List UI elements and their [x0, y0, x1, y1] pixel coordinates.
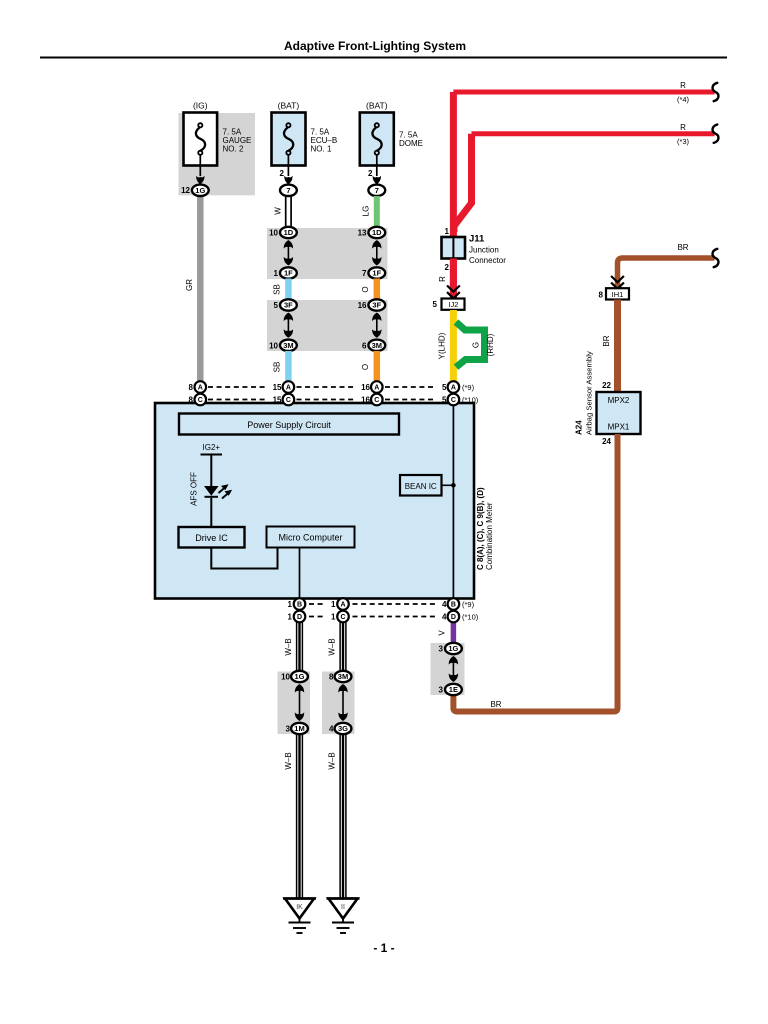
stub col2 into PSC — [287, 384, 289, 414]
svg-text:2: 2 — [368, 169, 373, 178]
svg-text:Connector: Connector — [469, 256, 506, 265]
header rule — [40, 57, 727, 59]
svg-text:C: C — [198, 397, 203, 404]
wire drive IC to micro computer — [211, 548, 277, 569]
svg-text:3G: 3G — [338, 724, 348, 733]
svg-text:Airbag Sensor Assembly: Airbag Sensor Assembly — [585, 351, 594, 435]
svg-text:16: 16 — [358, 301, 367, 310]
connector 7 (DOME) — [368, 185, 385, 196]
wire W-B from C — [340, 622, 346, 672]
svg-text:II: II — [341, 904, 345, 911]
svg-text:1D: 1D — [372, 228, 382, 237]
ECU A24 MPX box — [597, 392, 641, 434]
wire O upper — [374, 279, 381, 302]
gray panel: junction block 3M/3G — [322, 672, 355, 735]
connector 1D col2 — [280, 227, 297, 238]
connector circles A row — [195, 381, 207, 393]
svg-text:O: O — [361, 286, 370, 292]
IG2+ rail — [201, 455, 223, 487]
svg-text:SB: SB — [273, 284, 282, 295]
pass-through arrows 1G/1E — [449, 656, 458, 682]
svg-text:2: 2 — [445, 263, 450, 272]
wire W-B to ground II — [340, 734, 346, 898]
pass-through arrows col2 lower — [284, 313, 293, 338]
dashes row C — [208, 399, 436, 401]
gray panel behind fuse GAUGE NO.2 — [179, 113, 256, 195]
svg-text:B: B — [297, 602, 302, 609]
svg-text:8: 8 — [599, 290, 604, 299]
BEAN IC box — [400, 475, 442, 496]
svg-text:13: 13 — [358, 229, 367, 238]
wire SB upper — [285, 279, 292, 302]
svg-text:W: W — [274, 207, 283, 215]
svg-text:3F: 3F — [372, 301, 381, 310]
svg-text:10: 10 — [281, 673, 290, 682]
svg-text:1D: 1D — [284, 228, 294, 237]
fuse 7.5A ECU-B NO.1 — [272, 113, 306, 177]
svg-text:A: A — [286, 385, 291, 392]
wire BR IH1 to MPX2 — [614, 300, 621, 394]
svg-text:10: 10 — [269, 229, 278, 238]
arrow into 7 — [284, 176, 292, 185]
svg-text:(BAT): (BAT) — [366, 100, 388, 110]
connector 3G — [335, 723, 352, 734]
svg-text:C: C — [340, 614, 345, 621]
svg-text:1F: 1F — [372, 269, 381, 278]
svg-text:7: 7 — [375, 186, 379, 195]
fuse 7.5A DOME — [360, 113, 394, 177]
svg-text:(IG): (IG) — [193, 100, 208, 110]
svg-text:8: 8 — [329, 673, 334, 682]
pass-through arrows col3 — [372, 240, 381, 266]
svg-text:A: A — [374, 385, 379, 392]
double chevron above IH1 — [611, 276, 624, 289]
pins bottom row 2: 1 1 4 — [288, 613, 448, 622]
svg-text:NO. 1: NO. 1 — [311, 145, 332, 154]
svg-text:C: C — [374, 397, 379, 404]
svg-text:A: A — [340, 602, 345, 609]
gray panel: junction block 1D/1F — [267, 228, 388, 279]
svg-text:3M: 3M — [372, 341, 382, 350]
wire LG — [374, 196, 380, 228]
connector 1G — [192, 185, 209, 196]
connector 1G bottom — [291, 671, 308, 682]
svg-text:- 1 -: - 1 - — [373, 941, 394, 955]
label J11 Junction Connector — [469, 234, 506, 266]
gray panel: junction block 1G/1M — [278, 672, 311, 735]
svg-text:1: 1 — [288, 613, 293, 622]
svg-text:NO. 2: NO. 2 — [223, 145, 244, 154]
wire micro computer down to B — [299, 548, 301, 617]
svg-text:MPX2: MPX2 — [608, 396, 630, 405]
svg-text:IG2+: IG2+ — [203, 443, 221, 452]
svg-text:8: 8 — [189, 383, 194, 392]
gray panel: junction block 1G/1E — [431, 643, 465, 695]
svg-text:5: 5 — [274, 301, 279, 310]
pass-through arrows col2 — [284, 240, 293, 266]
svg-text:3: 3 — [439, 686, 444, 695]
svg-text:10: 10 — [269, 341, 278, 350]
connector 1D col3 — [368, 227, 385, 238]
wire O lower — [374, 351, 381, 382]
svg-text:A: A — [451, 385, 456, 392]
connector 3F col2 — [280, 299, 297, 310]
pins bottom row 1: 1 1 4 — [288, 600, 448, 609]
connector 7 (ECU-B) — [280, 185, 297, 196]
label R (*3) — [677, 123, 690, 146]
dashes row A — [208, 386, 436, 388]
svg-text:Combination Meter: Combination Meter — [485, 502, 494, 570]
svg-text:24: 24 — [602, 437, 611, 446]
svg-text:MPX1: MPX1 — [608, 423, 630, 432]
wire BR MPX1 to 1E (L-shape) — [453, 434, 617, 712]
svg-text:5: 5 — [442, 383, 447, 392]
svg-text:Micro Computer: Micro Computer — [278, 533, 342, 543]
svg-text:W–B: W–B — [284, 638, 293, 655]
drive IC box — [179, 527, 245, 548]
connector circles bottom row 1 B A B — [294, 598, 306, 610]
wire Y(LHD) — [450, 310, 457, 382]
fuse 7.5A GAUGE NO.2 — [184, 113, 218, 177]
svg-text:1G: 1G — [448, 644, 458, 653]
connector circles bottom row 2 D C D — [294, 611, 306, 623]
svg-text:(*9): (*9) — [462, 383, 475, 392]
svg-text:7: 7 — [362, 269, 367, 278]
connector 3M col2 — [280, 340, 297, 351]
combination meter ECU box — [155, 403, 474, 599]
break symbol R (*3) — [713, 125, 719, 143]
svg-text:D: D — [297, 614, 302, 621]
svg-text:12: 12 — [181, 186, 190, 195]
connector 3M col3 — [368, 340, 385, 351]
svg-text:V: V — [438, 630, 447, 636]
double chevron above IJ2 — [447, 286, 460, 299]
svg-text:1: 1 — [331, 613, 336, 622]
junction connector J11 — [442, 237, 466, 259]
svg-text:1G: 1G — [195, 186, 205, 195]
svg-text:4: 4 — [442, 613, 447, 622]
wire W-B from D — [297, 622, 303, 672]
arrow into 7 — [373, 176, 381, 185]
svg-text:(*4): (*4) — [677, 95, 690, 104]
svg-text:4: 4 — [442, 600, 447, 609]
pins row A: 8 15 16 5 — [189, 383, 448, 392]
svg-text:SB: SB — [273, 362, 282, 373]
svg-text:BR: BR — [677, 243, 688, 252]
connector 1G right — [445, 643, 462, 654]
svg-text:W–B: W–B — [328, 638, 337, 655]
inner line col4 from C to D — [452, 384, 454, 617]
wire R (*4) from fuse feed — [453, 90, 714, 95]
svg-text:1M: 1M — [294, 724, 304, 733]
label 7. 5A GAUGE NO. 2 — [223, 128, 252, 154]
svg-text:1: 1 — [331, 600, 336, 609]
svg-text:BR: BR — [490, 700, 501, 709]
svg-text:IK: IK — [296, 904, 303, 911]
svg-text:BEAN IC: BEAN IC — [405, 482, 437, 491]
break symbol BR — [713, 249, 719, 267]
svg-text:GR: GR — [185, 279, 194, 291]
pass-through arrows col3 lower — [372, 313, 381, 338]
svg-text:C: C — [286, 397, 291, 404]
svg-text:16: 16 — [361, 383, 370, 392]
ground IK — [283, 899, 316, 934]
wire BR from break to IH1 — [618, 258, 715, 289]
wire BEAN IC to bus — [442, 483, 456, 488]
label 7. 5A DOME — [399, 131, 423, 149]
svg-text:3: 3 — [439, 645, 444, 654]
stub to A/C pair bottom — [342, 597, 344, 617]
stub col1 into PSC — [199, 384, 201, 414]
wire SB lower — [285, 351, 292, 382]
svg-text:1E: 1E — [449, 685, 458, 694]
connector 3M bottom — [335, 671, 352, 682]
svg-text:Power Supply Circuit: Power Supply Circuit — [247, 420, 331, 430]
dashes bottom row 2 — [309, 616, 436, 618]
svg-text:(*3): (*3) — [677, 137, 690, 146]
svg-text:LG: LG — [362, 206, 371, 217]
svg-text:1F: 1F — [284, 269, 293, 278]
wire V — [451, 617, 457, 650]
svg-text:3M: 3M — [338, 672, 348, 681]
label R (*4) — [677, 81, 690, 104]
svg-text:3M: 3M — [283, 341, 293, 350]
svg-text:D: D — [451, 614, 456, 621]
gray panel: junction block 3F/3M — [267, 300, 388, 351]
svg-text:7: 7 — [286, 186, 290, 195]
wire G (RHD) branch — [456, 322, 485, 367]
svg-text:C: C — [451, 397, 456, 404]
svg-text:IH1: IH1 — [612, 290, 624, 299]
svg-text:5: 5 — [433, 300, 438, 309]
svg-text:A: A — [198, 385, 203, 392]
pass-through arrows 3M/3G — [338, 684, 347, 721]
svg-text:1G: 1G — [294, 672, 304, 681]
wire GR — [197, 195, 204, 382]
break symbol R (*4) — [713, 83, 719, 101]
svg-text:Y(LHD): Y(LHD) — [438, 332, 447, 359]
pass-through arrows 1G/1M — [295, 684, 304, 721]
svg-text:(BAT): (BAT) — [278, 100, 300, 110]
svg-text:R: R — [680, 123, 686, 132]
svg-text:2: 2 — [280, 169, 285, 178]
connector circles C row — [195, 394, 207, 406]
svg-text:W–B: W–B — [284, 752, 293, 769]
wire W-B to ground IK — [297, 734, 303, 898]
connector 3F col3 — [368, 299, 385, 310]
stub col3 into PSC — [376, 384, 378, 414]
svg-text:6: 6 — [362, 341, 367, 350]
svg-text:3: 3 — [286, 725, 291, 734]
svg-text:Drive IC: Drive IC — [195, 533, 228, 543]
svg-text:1: 1 — [288, 600, 293, 609]
connector IJ2 — [442, 299, 465, 310]
svg-text:W–B: W–B — [328, 752, 337, 769]
LED AFS OFF indicator — [204, 486, 219, 527]
svg-text:IJ2: IJ2 — [448, 300, 458, 309]
svg-text:(*10): (*10) — [462, 613, 479, 622]
pins row C: 8 15 16 5 — [189, 396, 448, 405]
arrow into 1G — [196, 176, 204, 185]
svg-text:O: O — [361, 364, 370, 370]
svg-text:AFS OFF: AFS OFF — [190, 472, 199, 506]
svg-text:Adaptive Front-Lighting System: Adaptive Front-Lighting System — [284, 39, 466, 53]
wire R (*3) — [472, 131, 715, 136]
svg-text:3F: 3F — [284, 301, 293, 310]
svg-text:A24: A24 — [575, 420, 584, 435]
svg-text:G: G — [472, 342, 481, 348]
svg-text:15: 15 — [273, 383, 282, 392]
svg-text:R: R — [438, 276, 447, 282]
connector 1M — [291, 723, 308, 734]
connector 1F col3 — [368, 267, 385, 278]
connector 1F col2 — [280, 267, 297, 278]
svg-text:C 8(A), (C), C 9(B), (D): C 8(A), (C), C 9(B), (D) — [476, 487, 485, 570]
connector IH1 — [606, 288, 629, 299]
power supply circuit box — [179, 414, 399, 435]
svg-text:Junction: Junction — [469, 246, 499, 255]
svg-text:BR: BR — [602, 335, 611, 346]
svg-text:(RHD): (RHD) — [486, 333, 495, 356]
svg-text:DOME: DOME — [399, 139, 423, 148]
svg-text:22: 22 — [602, 381, 611, 390]
svg-text:4: 4 — [329, 725, 334, 734]
svg-text:1: 1 — [274, 269, 279, 278]
dashes bottom row 1 — [309, 603, 436, 605]
svg-text:J11: J11 — [469, 234, 485, 245]
connector 1E — [445, 684, 462, 695]
svg-text:R: R — [680, 81, 686, 90]
svg-text:1: 1 — [445, 227, 450, 236]
svg-text:(*9): (*9) — [462, 600, 475, 609]
micro computer box — [267, 527, 355, 548]
svg-text:B: B — [451, 602, 456, 609]
wire W double line — [286, 196, 291, 228]
ground II — [327, 899, 360, 934]
wire R J11 to IJ2 — [450, 259, 457, 298]
LED light arrows — [219, 484, 233, 498]
label 7. 5A ECU-B NO. 1 — [311, 128, 338, 154]
